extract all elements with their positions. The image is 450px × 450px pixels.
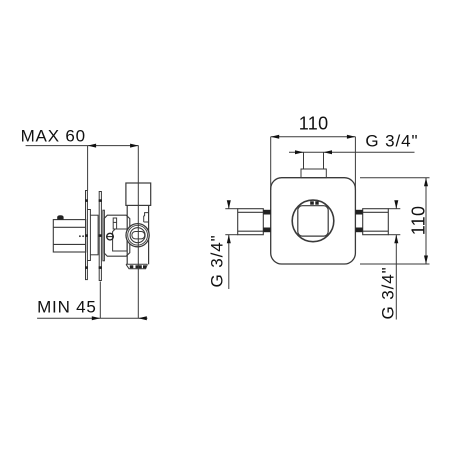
svg-text:G 3/4": G 3/4" [378,266,397,319]
top pipe [304,152,324,169]
stem ticks [310,201,314,204]
extension line at wall plate [87,146,89,191]
svg-text:G 3/4": G 3/4" [208,234,227,287]
left stub extension ticks [225,208,237,210]
wall plate A [86,191,88,280]
valve body side [127,205,148,264]
cartridge housing [104,215,129,256]
leader G 3/4 bottom right [394,200,398,319]
extension lines 110 top [270,137,272,190]
left stub [238,209,264,235]
front body [271,178,356,264]
concealed body box [53,220,85,252]
svg-text:MAX 60: MAX 60 [21,127,86,146]
dimension line MIN 45 [37,316,147,320]
cartridge flange [103,210,105,261]
cartridge square [298,206,328,236]
svg-text:110: 110 [299,114,329,134]
cartridge boss [113,218,127,229]
dimension line 110 top [271,135,356,139]
top flange [301,169,326,178]
adjuster screw [107,233,114,240]
svg-text:110: 110 [409,206,429,236]
dimension line MAX 60 [26,144,139,148]
right stub [363,209,389,235]
mounting bracket between plates [87,210,98,261]
body notch right [144,213,149,222]
svg-text:G 3/4": G 3/4" [365,132,418,151]
wall plate B [99,192,101,281]
centerline of valve [137,146,139,319]
extension lines 110 right [360,177,430,179]
handle slot [132,232,145,239]
cartridge nut [113,229,127,251]
right stub tabs [355,210,362,215]
plate A ticks [85,199,88,202]
plate B ticks [99,199,102,202]
cap on box [57,215,63,219]
svg-text:MIN 45: MIN 45 [37,298,97,317]
handle circle front [292,200,334,242]
valve knob (top) [126,183,151,205]
dots on box [79,235,81,237]
outlet teeth [130,265,134,268]
outlet [126,264,147,268]
right stub extension ticks [388,208,400,210]
handle circle (side) [126,224,149,247]
left stub tabs [263,210,270,215]
extension line at inner plate [99,282,101,319]
leader G 3/4 left [227,200,231,289]
dimension line 110 right [424,178,428,264]
leader G 3/4 top [289,150,415,154]
